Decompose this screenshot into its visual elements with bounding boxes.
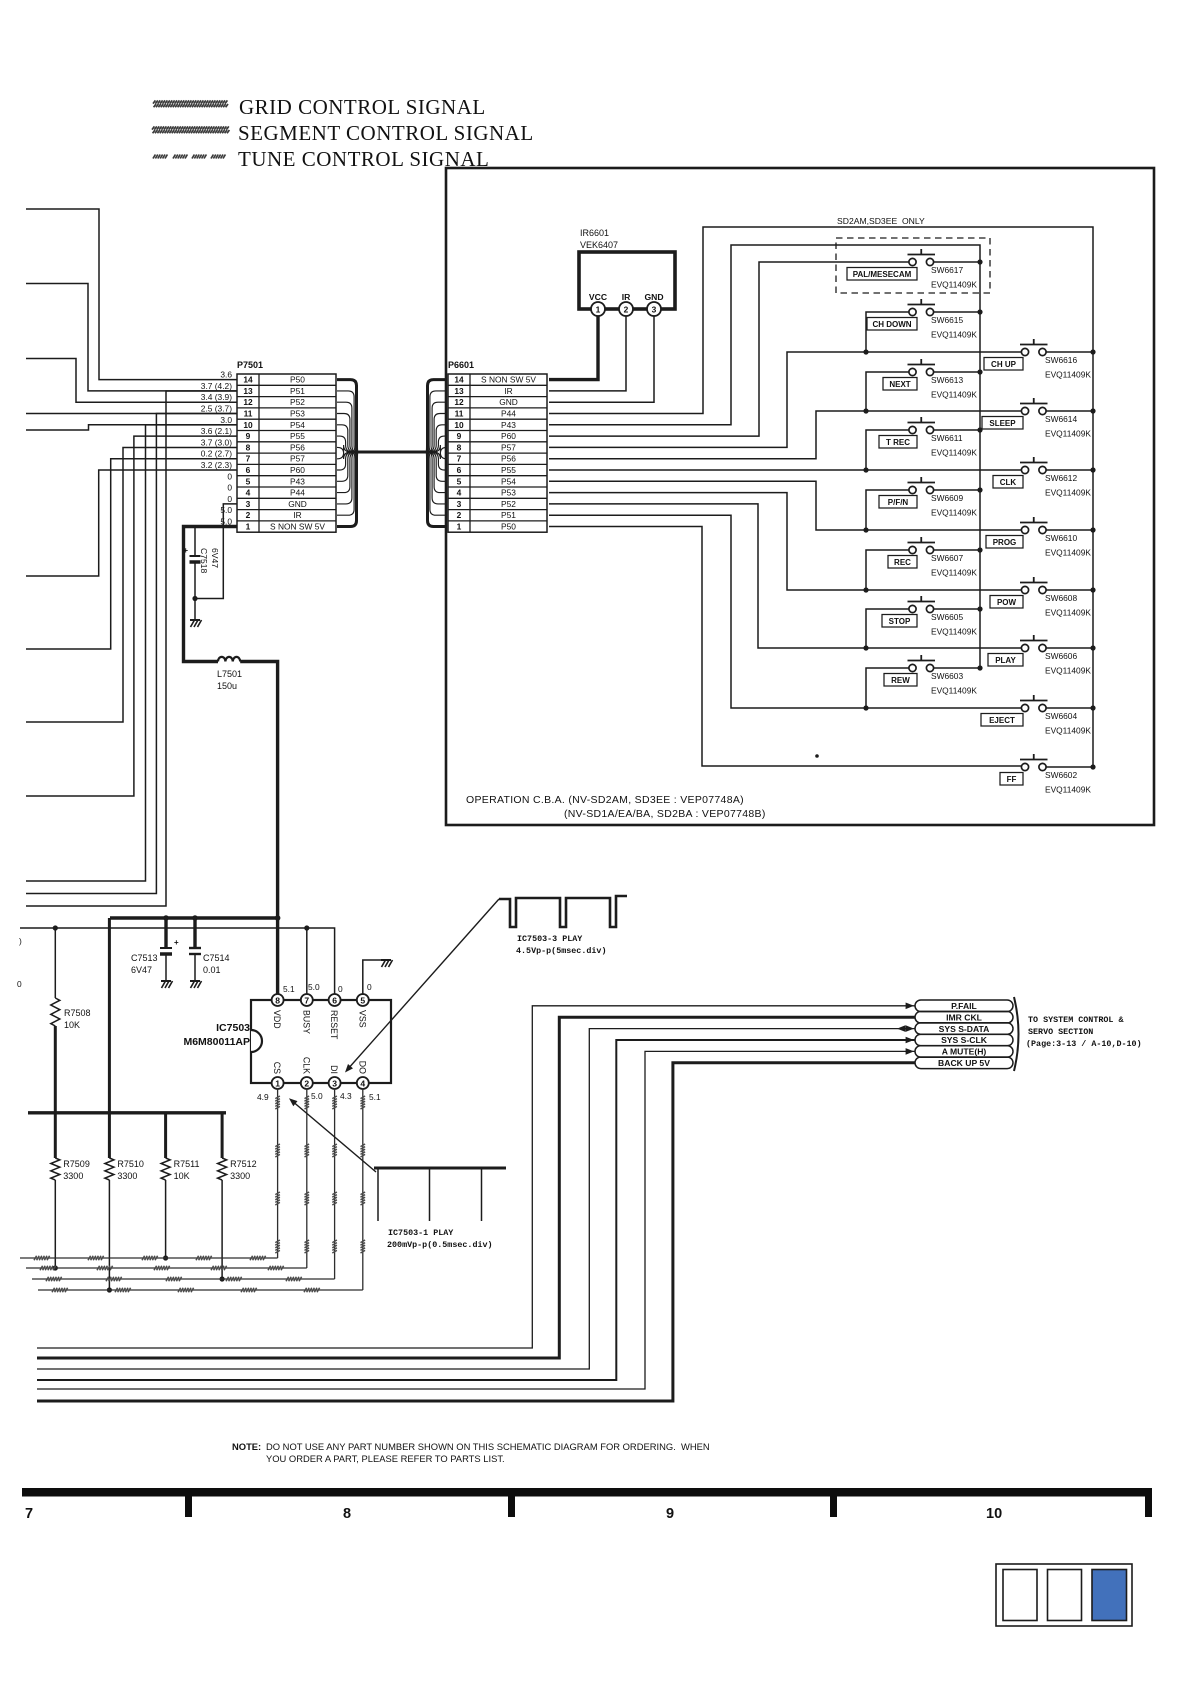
svg-text:5: 5 bbox=[246, 476, 251, 486]
svg-text:IR6601: IR6601 bbox=[580, 228, 609, 238]
branch SW6609 to row bbox=[866, 490, 913, 530]
svg-text:5.0: 5.0 bbox=[220, 505, 232, 515]
svg-text:EVQ11409K: EVQ11409K bbox=[1045, 785, 1091, 795]
key label P/F/N bbox=[879, 496, 917, 509]
svg-text:3300: 3300 bbox=[63, 1171, 83, 1181]
svg-text:IR: IR bbox=[622, 292, 631, 302]
svg-text:3.7 (4.2): 3.7 (4.2) bbox=[201, 381, 232, 391]
svg-text:2: 2 bbox=[624, 304, 629, 314]
svg-text:P55: P55 bbox=[501, 465, 516, 475]
svg-text:1: 1 bbox=[246, 522, 251, 532]
svg-text:13: 13 bbox=[243, 386, 253, 396]
ground below C7518 bbox=[194, 599, 196, 621]
wire P7501 row 8 down to left edge exit bbox=[26, 447, 237, 722]
svg-text:M6M80011AP: M6M80011AP bbox=[183, 1036, 250, 1048]
svg-text:SW6615: SW6615 bbox=[931, 315, 963, 325]
IC U7503 M6M80011AP body bbox=[251, 1000, 391, 1083]
svg-text:EVQ11409K: EVQ11409K bbox=[931, 686, 977, 696]
svg-text:EVQ11409K: EVQ11409K bbox=[1045, 370, 1091, 380]
svg-text:+: + bbox=[174, 938, 179, 947]
key label NEXT bbox=[883, 378, 917, 391]
svg-text:IMR CKL: IMR CKL bbox=[946, 1012, 982, 1022]
junction node on reset line at BUSY bbox=[304, 925, 309, 930]
svg-text:3300: 3300 bbox=[230, 1171, 250, 1181]
svg-text:P44: P44 bbox=[290, 488, 305, 498]
P7501 pin voltage annotations bbox=[201, 370, 233, 527]
wire P7501 pin3 GND to C7518 bottom node bbox=[195, 504, 237, 599]
legend: tune control signal line sample bbox=[153, 155, 225, 159]
connector P7501 pin numbers and net labels bbox=[243, 375, 325, 532]
svg-text:4.3: 4.3 bbox=[340, 1091, 352, 1101]
svg-text:5.1: 5.1 bbox=[369, 1092, 381, 1102]
wire from left edge to IC7503 pin6 RESET bbox=[20, 928, 335, 995]
control signal bus line to IC7503 DI bus bbox=[32, 1088, 337, 1281]
wire IC7503 pin7 BUSY up to reset line bbox=[306, 928, 308, 995]
svg-text:3.7 (3.0): 3.7 (3.0) bbox=[201, 437, 232, 447]
svg-text:IR: IR bbox=[504, 386, 512, 396]
wire IR6601 pin2 IR to P6601 pin13 bbox=[549, 316, 626, 391]
svg-text:GND: GND bbox=[644, 292, 663, 302]
inductor L7501 bbox=[218, 657, 240, 662]
svg-text:R7511: R7511 bbox=[174, 1159, 200, 1169]
svg-text:10K: 10K bbox=[174, 1171, 190, 1181]
IC7503 pin 7 circle (BUSY) bbox=[301, 994, 313, 1006]
svg-text:2.5 (3.7): 2.5 (3.7) bbox=[201, 404, 232, 414]
svg-text:9: 9 bbox=[666, 1506, 674, 1522]
svg-text:SW6609: SW6609 bbox=[931, 493, 963, 503]
pushbutton switch SW6607 (REC) bbox=[908, 537, 936, 554]
svg-text:DI: DI bbox=[329, 1065, 339, 1074]
key label SLEEP bbox=[982, 417, 1023, 430]
legend: grid control signal line sample bbox=[153, 100, 228, 107]
pointer arrow waveform3 to IC7503 pin3 bbox=[347, 899, 499, 1070]
svg-text:P50: P50 bbox=[501, 522, 516, 532]
svg-text:3: 3 bbox=[652, 304, 657, 314]
svg-text:S NON SW 5V: S NON SW 5V bbox=[481, 375, 536, 385]
IR6601 pin 3 circle bbox=[647, 302, 661, 316]
ruler tick bbox=[1145, 1496, 1152, 1517]
svg-text:1: 1 bbox=[457, 522, 462, 532]
svg-text:SW6607: SW6607 bbox=[931, 553, 963, 563]
pushbutton switch SW6616 (CH UP) bbox=[1020, 339, 1048, 356]
svg-text:0: 0 bbox=[338, 984, 343, 994]
svg-text:YOU ORDER A PART, PLEASE REFER: YOU ORDER A PART, PLEASE REFER TO PARTS … bbox=[266, 1453, 505, 1464]
svg-text:CS: CS bbox=[272, 1062, 282, 1074]
svg-text:EVQ11409K: EVQ11409K bbox=[931, 568, 977, 578]
svg-text:8: 8 bbox=[457, 442, 462, 452]
junction node R7512 to bus bbox=[220, 1276, 225, 1281]
svg-text:2: 2 bbox=[304, 1078, 309, 1088]
ruler tick bbox=[185, 1496, 192, 1517]
control signal bus line to IC7503 DO bus bbox=[38, 1088, 365, 1292]
svg-text:SW6617: SW6617 bbox=[931, 265, 963, 275]
svg-text:P43: P43 bbox=[501, 420, 516, 430]
junction node SW6615 on bus bbox=[977, 309, 982, 314]
svg-text:SW6613: SW6613 bbox=[931, 375, 963, 385]
svg-text:4.9: 4.9 bbox=[257, 1092, 269, 1102]
svg-text:6V47: 6V47 bbox=[210, 548, 220, 568]
wire from left edge to P7501 pin12 bbox=[26, 359, 237, 403]
junction node SW6607 on bus bbox=[977, 547, 982, 552]
capacitor C7518 (electrolytic) bbox=[190, 528, 201, 599]
svg-text:P56: P56 bbox=[501, 454, 516, 464]
wire SW6617 to key bus bbox=[934, 261, 980, 263]
svg-text:EVQ11409K: EVQ11409K bbox=[1045, 666, 1091, 676]
wire P6601 pin10 P43 to left key bus bbox=[549, 245, 980, 668]
junction node R7511 to bus bbox=[163, 1255, 168, 1260]
svg-text:EVQ11409K: EVQ11409K bbox=[931, 390, 977, 400]
svg-text:P56: P56 bbox=[290, 442, 305, 452]
wire SW6612 to key bus bbox=[1046, 469, 1093, 471]
svg-text:4.5Vp-p(5msec.div): 4.5Vp-p(5msec.div) bbox=[516, 946, 606, 956]
junction node SW6603 on bus bbox=[977, 665, 982, 670]
wire P7501 row 6 down to left edge exit bbox=[26, 470, 237, 576]
svg-text:SW6602: SW6602 bbox=[1045, 770, 1077, 780]
svg-text:3.0: 3.0 bbox=[220, 415, 232, 425]
pushbutton switch SW6605 (STOP) bbox=[908, 596, 936, 613]
wire IC7503 pin5 VSS to ground bbox=[363, 960, 386, 995]
wire from left edge to P7501 pin11 bbox=[26, 413, 237, 415]
junction node SW6610 on bus bbox=[1090, 527, 1095, 532]
svg-text:12: 12 bbox=[243, 397, 253, 407]
svg-text:EVQ11409K: EVQ11409K bbox=[931, 280, 977, 290]
svg-text:7: 7 bbox=[246, 454, 251, 464]
pushbutton switch SW6606 (PLAY) bbox=[1020, 635, 1048, 652]
signal flag IMR CKL bbox=[915, 1011, 1013, 1023]
resistor R7509 3300 bbox=[51, 1158, 60, 1268]
svg-text:3.4 (3.9): 3.4 (3.9) bbox=[201, 392, 232, 402]
svg-text:EJECT: EJECT bbox=[989, 716, 1015, 725]
svg-text:6: 6 bbox=[332, 995, 337, 1005]
wire P7501 row 7 down to left edge exit bbox=[26, 459, 237, 649]
svg-text:SD2AM,SD3EE ONLY: SD2AM,SD3EE ONLY bbox=[837, 216, 925, 226]
svg-text:EVQ11409K: EVQ11409K bbox=[931, 627, 977, 637]
svg-text:200mVp-p(0.5msec.div): 200mVp-p(0.5msec.div) bbox=[387, 1240, 493, 1250]
junction node SW6611 on bus bbox=[977, 427, 982, 432]
svg-text:EVQ11409K: EVQ11409K bbox=[931, 330, 977, 340]
pushbutton switch SW6617 (PAL/MESECAM) bbox=[908, 249, 936, 266]
svg-text:IC7503-1 PLAY: IC7503-1 PLAY bbox=[388, 1228, 454, 1238]
wire P6601 pin1 P50 to SW6602 row bbox=[549, 527, 1021, 767]
branch SW6613 to row bbox=[866, 372, 913, 411]
key label REC bbox=[888, 556, 917, 569]
svg-text:P/F/N: P/F/N bbox=[888, 498, 909, 507]
wire SW6603 to key bus bbox=[934, 667, 980, 669]
key label CH UP bbox=[984, 358, 1023, 371]
svg-text:L7501: L7501 bbox=[217, 669, 242, 679]
dashed box: SD2AM,SD3EE ONLY option around SW6617 bbox=[836, 238, 990, 293]
IR6601 pin 2 circle bbox=[619, 302, 633, 316]
pushbutton switch SW6602 (FF) bbox=[1020, 754, 1048, 771]
connector P6601 pin numbers and net labels bbox=[454, 375, 536, 532]
signal flag BACK UP 5V bbox=[915, 1057, 1013, 1069]
svg-text:GND: GND bbox=[499, 397, 518, 407]
pushbutton switch SW6610 (PROG) bbox=[1020, 517, 1048, 534]
pushbutton switch SW6612 (CLK) bbox=[1020, 457, 1048, 474]
wire SW6606 to key bus bbox=[1046, 647, 1093, 649]
svg-text:SYS S-CLK: SYS S-CLK bbox=[941, 1035, 988, 1045]
IC7503 pin 4 circle (DO) bbox=[357, 1077, 369, 1089]
svg-text:T REC: T REC bbox=[886, 438, 910, 447]
pushbutton switch SW6609 (P/F/N) bbox=[908, 477, 936, 494]
IC7503 index notch bbox=[251, 1030, 262, 1052]
svg-text:P55: P55 bbox=[290, 431, 305, 441]
svg-text:3.6: 3.6 bbox=[220, 370, 232, 380]
svg-text:4: 4 bbox=[360, 1078, 365, 1088]
svg-text:SLEEP: SLEEP bbox=[989, 419, 1016, 428]
svg-text:IR: IR bbox=[293, 510, 301, 520]
svg-text:P52: P52 bbox=[501, 499, 516, 509]
wire from left edge to P7501 pin14 bbox=[26, 209, 237, 380]
branch SW6605 to row bbox=[866, 609, 913, 648]
wire IR6601 pin1 VCC to P6601 pin14 (S NON SW 5V, thick) bbox=[549, 316, 598, 380]
svg-text:R7510: R7510 bbox=[117, 1159, 144, 1169]
svg-text:EVQ11409K: EVQ11409K bbox=[1045, 488, 1091, 498]
brace bracket for signal flag group bbox=[1014, 997, 1019, 1071]
svg-text:EVQ11409K: EVQ11409K bbox=[1045, 726, 1091, 736]
svg-text:P54: P54 bbox=[290, 420, 305, 430]
branch SW6611 to row bbox=[866, 430, 913, 470]
junction node SW6616 on bus bbox=[1090, 349, 1095, 354]
svg-text:3: 3 bbox=[332, 1078, 337, 1088]
svg-text:SERVO SECTION: SERVO SECTION bbox=[1028, 1027, 1093, 1037]
wire to SYS S-CLK flag bbox=[37, 1040, 915, 1380]
svg-text:NEXT: NEXT bbox=[889, 380, 910, 389]
svg-text:CLK: CLK bbox=[301, 1057, 311, 1074]
branch SW6615 to row bbox=[866, 312, 913, 352]
branch SW6607 to row bbox=[866, 550, 913, 590]
svg-text:R7508: R7508 bbox=[64, 1008, 91, 1018]
lower bias rail (thick) bbox=[28, 1111, 226, 1114]
key label EJECT bbox=[981, 714, 1023, 727]
svg-text:7: 7 bbox=[25, 1506, 33, 1522]
svg-text:DO: DO bbox=[357, 1061, 367, 1074]
arrowhead SYS S-CLK bbox=[906, 1037, 914, 1044]
svg-text:5.0: 5.0 bbox=[311, 1091, 323, 1101]
page tab legend outer box bbox=[996, 1564, 1132, 1626]
svg-text:P.FAIL: P.FAIL bbox=[951, 1001, 977, 1011]
thick stub lower rail to R7512 bbox=[221, 1113, 224, 1158]
svg-text:0: 0 bbox=[227, 494, 232, 504]
svg-text:FF: FF bbox=[1007, 775, 1017, 784]
pushbutton switch SW6611 (T REC) bbox=[908, 417, 936, 434]
wire SW6613 to key bus bbox=[934, 371, 980, 373]
wire from left edge to P7501 pin13 bbox=[26, 284, 237, 391]
wire to BACK UP 5V flag bbox=[37, 1063, 915, 1401]
IR receiver IR6601 VEK6407 body bbox=[579, 252, 675, 309]
svg-text:SW6611: SW6611 bbox=[931, 433, 963, 443]
double arrowhead SYS S-DATA bbox=[906, 1025, 914, 1032]
svg-text:14: 14 bbox=[243, 375, 253, 385]
wire to IMR CKL flag bbox=[37, 1017, 915, 1358]
thick feed from VDD rail down to lower rail bbox=[108, 918, 111, 1158]
svg-text:3.6 (2.1): 3.6 (2.1) bbox=[201, 426, 232, 436]
svg-text:C7518: C7518 bbox=[199, 548, 209, 574]
capacitor C7513 (electrolytic) on VDD rail bbox=[160, 918, 173, 988]
svg-text:CLK: CLK bbox=[1000, 478, 1017, 487]
branch SW6603 to row bbox=[866, 668, 913, 708]
junction node C7518 bottom bbox=[192, 596, 197, 601]
wire SW6611 to key bus bbox=[934, 429, 980, 431]
svg-text:IC7503-3 PLAY: IC7503-3 PLAY bbox=[517, 934, 583, 944]
svg-text:5: 5 bbox=[360, 995, 365, 1005]
key label PAL/MESECAM bbox=[847, 268, 917, 281]
junction node SW6605 on bus bbox=[977, 606, 982, 611]
svg-text:P52: P52 bbox=[290, 397, 305, 407]
svg-text:0: 0 bbox=[367, 982, 372, 992]
svg-text:IC7503: IC7503 bbox=[216, 1022, 250, 1034]
cable bundle fan-out arcs at both connectors bbox=[337, 380, 447, 527]
key label POW bbox=[990, 596, 1023, 609]
IC7503 pin 2 circle (CLK) bbox=[301, 1077, 313, 1089]
wire P7501 row 13 down to left edge exit bbox=[26, 391, 237, 906]
svg-text:STOP: STOP bbox=[889, 617, 911, 626]
svg-text:7: 7 bbox=[304, 995, 309, 1005]
IC7503 pin 3 circle (DI) bbox=[329, 1077, 341, 1089]
svg-text:SYS S-DATA: SYS S-DATA bbox=[939, 1024, 990, 1034]
svg-text:EVQ11409K: EVQ11409K bbox=[931, 448, 977, 458]
key label REW bbox=[884, 674, 917, 687]
svg-text:P53: P53 bbox=[290, 409, 305, 419]
wire SW6610 to key bus bbox=[1046, 529, 1093, 531]
svg-text:SW6608: SW6608 bbox=[1045, 593, 1077, 603]
thick stub lower rail to R7511 bbox=[164, 1113, 167, 1158]
wire SW6616 to key bus bbox=[1046, 351, 1093, 353]
wire IR6601 pin3 GND to P6601 pin12 bbox=[549, 316, 654, 402]
svg-text:DO NOT USE ANY PART NUMBER SHO: DO NOT USE ANY PART NUMBER SHOWN ON THIS… bbox=[266, 1441, 710, 1452]
svg-text:PAL/MESECAM: PAL/MESECAM bbox=[853, 270, 912, 279]
resistor R7511 10K bbox=[161, 1158, 170, 1258]
svg-text:12: 12 bbox=[454, 397, 464, 407]
svg-text:9: 9 bbox=[457, 431, 462, 441]
svg-text:6V47: 6V47 bbox=[131, 965, 152, 975]
ruler tick bbox=[508, 1496, 515, 1517]
svg-text:TO SYSTEM CONTROL &: TO SYSTEM CONTROL & bbox=[1028, 1015, 1124, 1025]
svg-text:R7509: R7509 bbox=[63, 1159, 90, 1169]
svg-text:6: 6 bbox=[457, 465, 462, 475]
legend: segment control signal line sample bbox=[152, 126, 229, 133]
junction node SW6606 on bus bbox=[1090, 645, 1095, 650]
svg-text:1: 1 bbox=[275, 1078, 280, 1088]
waveform IC7503-3 PLAY bbox=[499, 896, 627, 927]
operation C.B.A. board outline box bbox=[446, 168, 1154, 825]
junction nodes on VDD rail bbox=[163, 915, 169, 921]
key label PLAY bbox=[988, 654, 1023, 667]
wire SW6605 to key bus bbox=[934, 608, 980, 610]
svg-text:5.1: 5.1 bbox=[283, 984, 295, 994]
wire SW6614 to key bus bbox=[1046, 410, 1093, 412]
svg-text:EVQ11409K: EVQ11409K bbox=[1045, 429, 1091, 439]
svg-text:P50: P50 bbox=[290, 375, 305, 385]
svg-text:P60: P60 bbox=[501, 431, 516, 441]
wire P6601 pin3 P52 to SW6606 row bbox=[549, 504, 1025, 648]
page tab square 2 bbox=[1048, 1570, 1082, 1621]
junction node SW6612 on bus bbox=[1090, 467, 1095, 472]
resistor R7512 3300 bbox=[218, 1158, 227, 1279]
svg-text:SW6606: SW6606 bbox=[1045, 651, 1077, 661]
svg-text:0.2 (2.7): 0.2 (2.7) bbox=[201, 449, 232, 459]
svg-text:SEGMENT CONTROL SIGNAL: SEGMENT CONTROL SIGNAL bbox=[238, 121, 534, 145]
wire SW6609 to key bus bbox=[934, 489, 980, 491]
svg-text:P6601: P6601 bbox=[448, 360, 474, 370]
key label CLK bbox=[993, 476, 1023, 489]
wire to SYS S-DATA flag bbox=[37, 1029, 915, 1369]
svg-text:P51: P51 bbox=[290, 386, 305, 396]
svg-text:POW: POW bbox=[997, 598, 1017, 607]
stray print dot bbox=[815, 754, 819, 758]
IC7503 pin 5 circle (VSS) bbox=[357, 994, 369, 1006]
junction node SW6608 on bus bbox=[1090, 587, 1095, 592]
wire P6601 pin11 P44 to right key bus (top loop) bbox=[549, 227, 1093, 767]
connector P7501 outline bbox=[237, 374, 336, 532]
svg-text:6: 6 bbox=[246, 465, 251, 475]
svg-text:BUSY: BUSY bbox=[301, 1010, 311, 1034]
svg-text:14: 14 bbox=[454, 375, 464, 385]
svg-text:A MUTE(H): A MUTE(H) bbox=[942, 1047, 987, 1057]
capacitor C7514 on VDD rail bbox=[189, 918, 202, 988]
svg-text:EVQ11409K: EVQ11409K bbox=[1045, 608, 1091, 618]
svg-text:1: 1 bbox=[596, 304, 601, 314]
svg-text:3: 3 bbox=[457, 499, 462, 509]
svg-text:13: 13 bbox=[454, 386, 464, 396]
connector P6601 outline bbox=[448, 374, 547, 532]
svg-text:R7512: R7512 bbox=[230, 1159, 257, 1169]
connector P7501 pin grid bbox=[237, 374, 336, 532]
svg-text:2: 2 bbox=[246, 510, 251, 520]
wire P7501 row 10 down to left edge exit bbox=[26, 425, 237, 881]
svg-text:3300: 3300 bbox=[117, 1171, 137, 1181]
wire P7501 row 9 down to left edge exit bbox=[26, 436, 237, 796]
svg-text:10: 10 bbox=[454, 420, 464, 430]
svg-text:SW6605: SW6605 bbox=[931, 612, 963, 622]
svg-text:SW6612: SW6612 bbox=[1045, 473, 1077, 483]
svg-text:P51: P51 bbox=[501, 510, 516, 520]
page tab square 1 bbox=[1003, 1570, 1037, 1621]
svg-text:C7513: C7513 bbox=[131, 953, 158, 963]
key label FF bbox=[1000, 773, 1023, 786]
svg-text:C7514: C7514 bbox=[203, 953, 230, 963]
svg-text:P44: P44 bbox=[501, 409, 516, 419]
svg-text:(Page:3-13 / A-10,D-10): (Page:3-13 / A-10,D-10) bbox=[1026, 1039, 1142, 1049]
connector P6601 pin grid bbox=[448, 374, 547, 532]
signal flag A MUTE(H) bbox=[915, 1046, 1013, 1058]
wire from left edge to P7501 pin10 bbox=[26, 425, 237, 430]
junction node R7510 to bus bbox=[107, 1287, 112, 1292]
arrowhead P.FAIL bbox=[906, 1003, 914, 1010]
IC7503 pin 6 circle (RESET) bbox=[329, 994, 341, 1006]
svg-text:P7501: P7501 bbox=[237, 360, 263, 370]
svg-text:2: 2 bbox=[457, 510, 462, 520]
wire P6601 pin7 P56 to SW6614 row bbox=[549, 411, 1025, 459]
wire to A MUTE(H) flag bbox=[37, 1051, 915, 1389]
svg-text:SW6616: SW6616 bbox=[1045, 355, 1077, 365]
svg-text:PLAY: PLAY bbox=[995, 656, 1016, 665]
control signal bus line to IC7503 CS bus bbox=[20, 1088, 280, 1260]
svg-text:5: 5 bbox=[457, 476, 462, 486]
IR6601 pin 1 circle bbox=[591, 302, 605, 316]
svg-text:11: 11 bbox=[455, 409, 464, 419]
svg-text:OPERATION C.B.A. (NV-SD2AM, SD: OPERATION C.B.A. (NV-SD2AM, SD3EE : VEP0… bbox=[466, 794, 744, 806]
svg-text:VDD: VDD bbox=[272, 1010, 282, 1029]
key label PROG bbox=[986, 536, 1023, 549]
svg-text:NOTE:: NOTE: bbox=[232, 1441, 261, 1452]
VDD rail (thick) bbox=[110, 916, 278, 919]
signal flag SYS S-CLK bbox=[915, 1034, 1013, 1046]
resistor R7510 3300 bbox=[105, 1158, 114, 1290]
junction node SW6602 on bus bbox=[1090, 764, 1095, 769]
junction node SW6609 on bus bbox=[977, 487, 982, 492]
svg-text:10: 10 bbox=[243, 420, 253, 430]
